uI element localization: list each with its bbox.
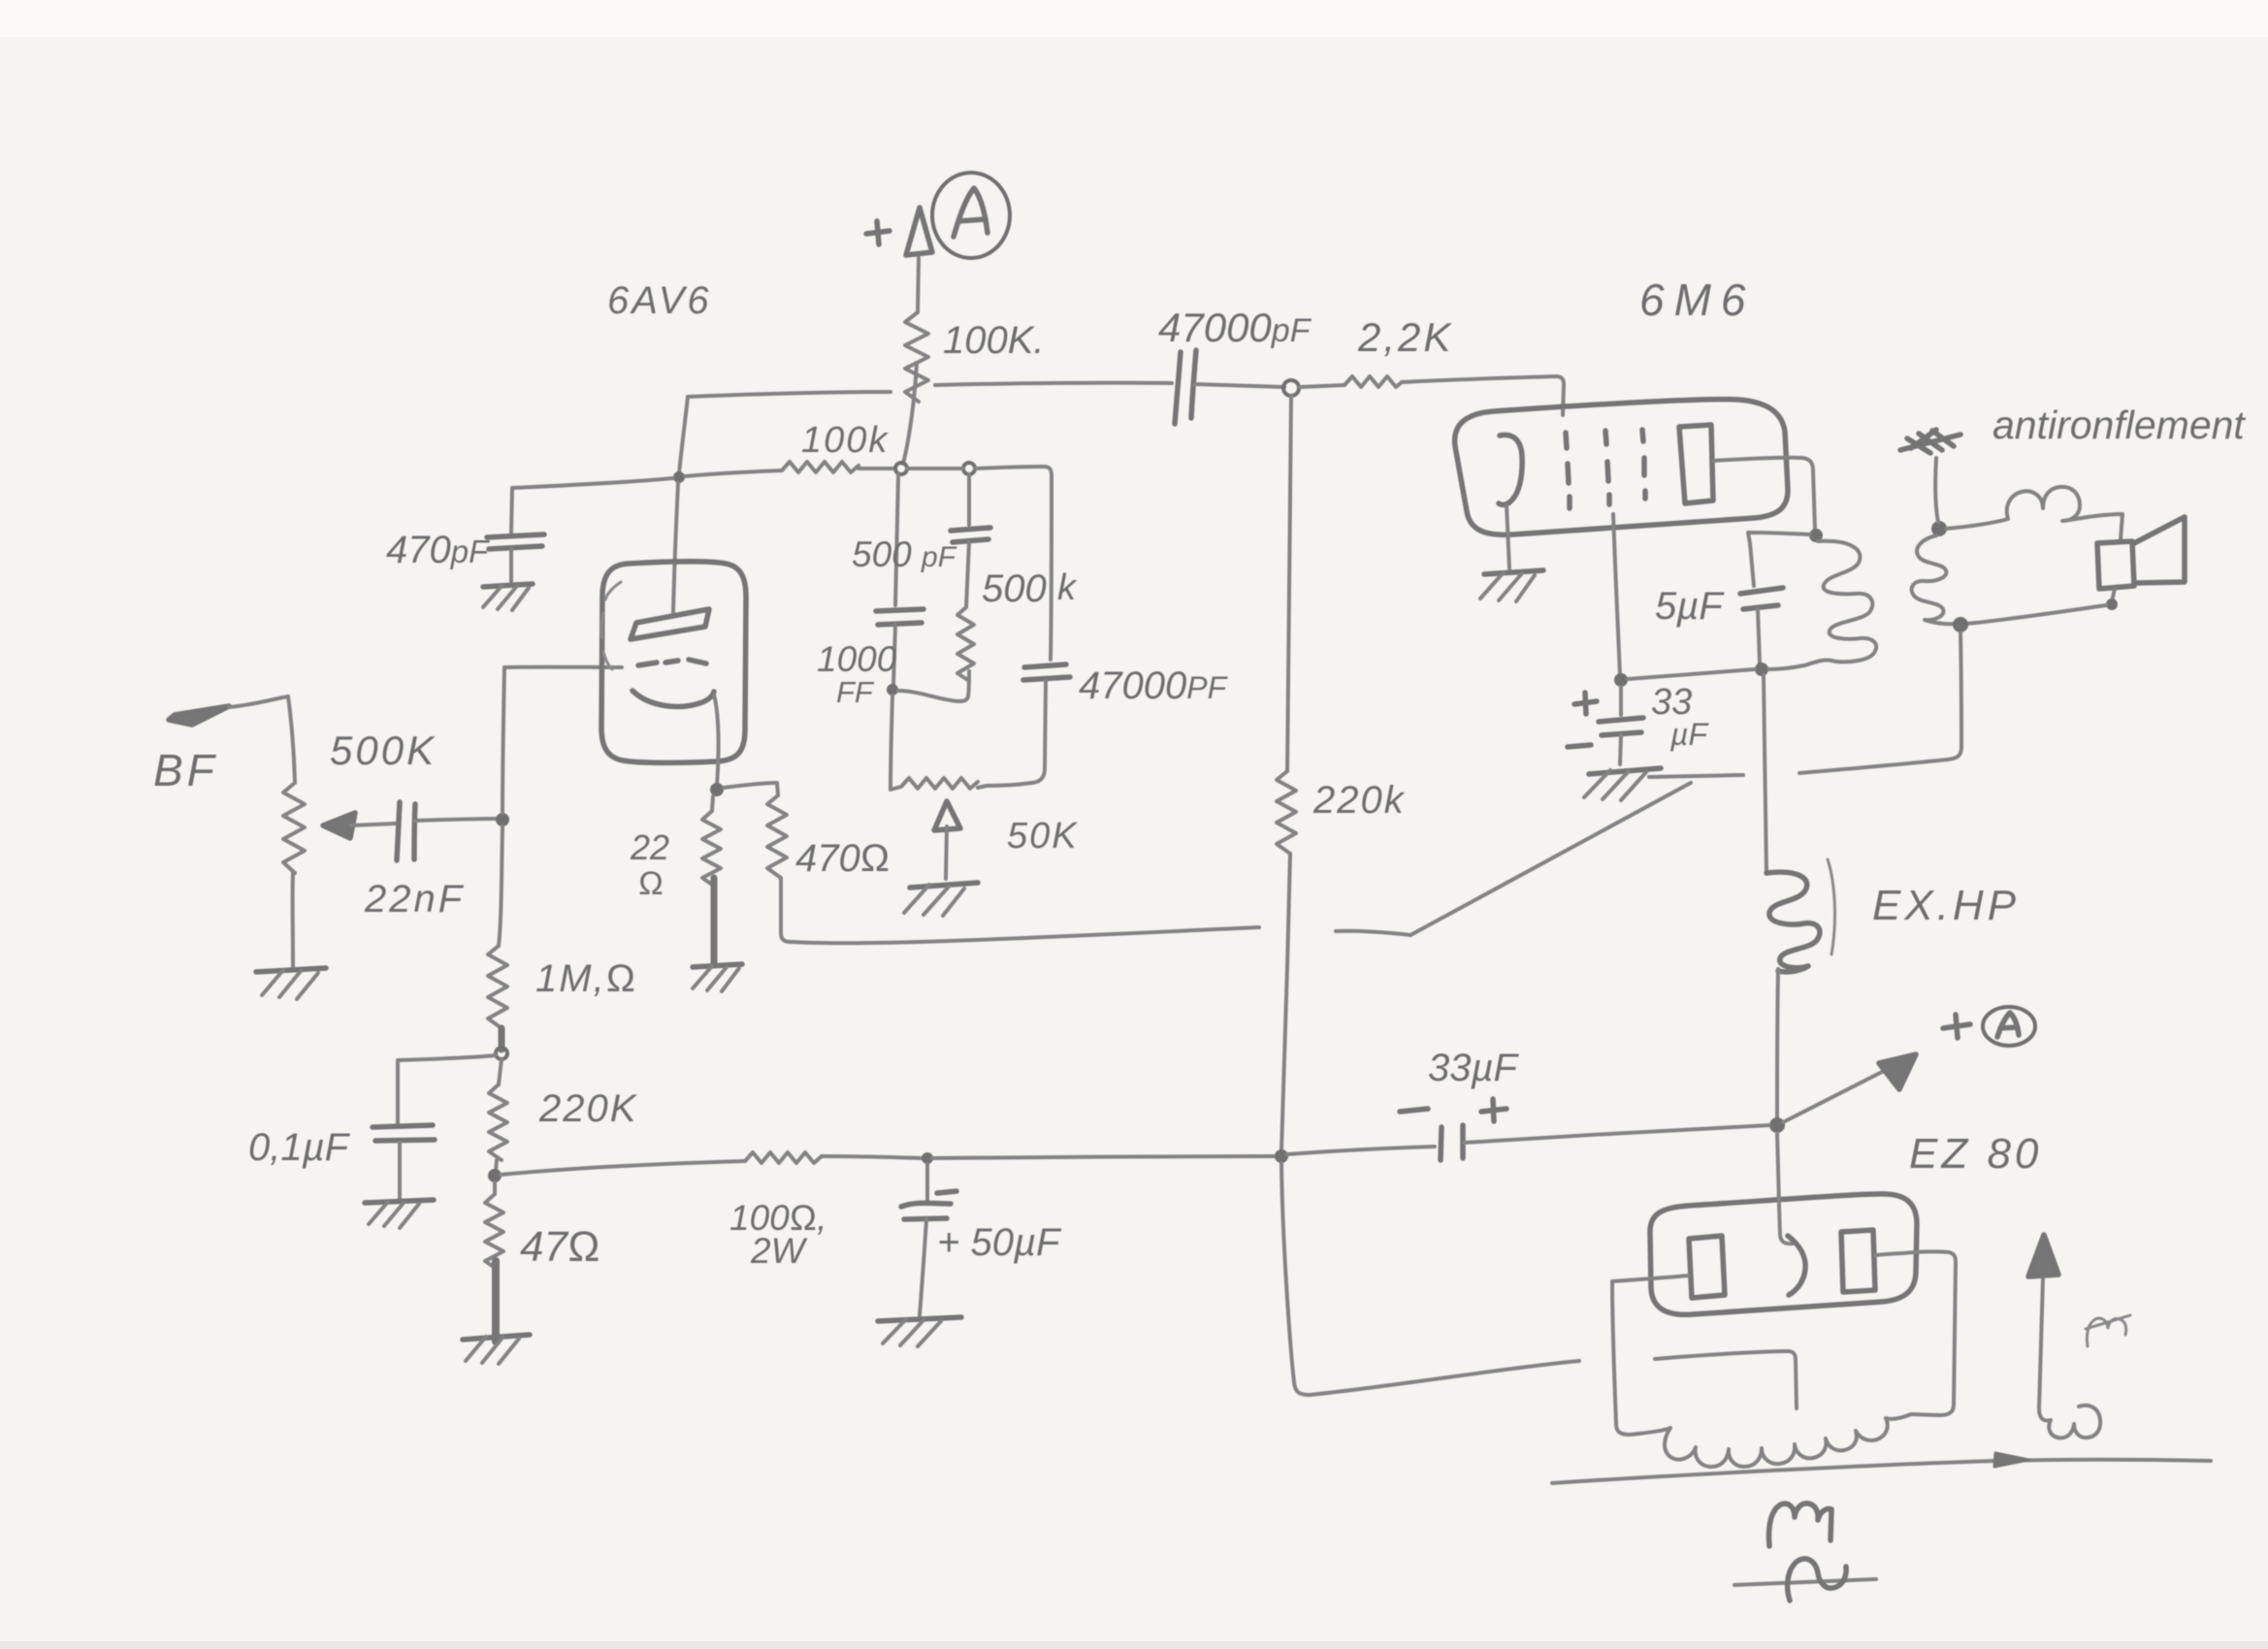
wire BF to pot top	[288, 696, 295, 783]
resistor 220K right	[1277, 771, 1296, 854]
svg-text:22: 22	[630, 827, 669, 867]
wire cathode to 470ohm corner	[724, 783, 778, 795]
tube EZ80 anode left	[1689, 1236, 1725, 1298]
resistor 470 ohm	[767, 795, 787, 880]
ground (0.1uF)	[365, 1200, 434, 1203]
node junction cathode 6M6	[1614, 673, 1628, 687]
node anti-hum hatch	[1900, 430, 1960, 453]
resistor 47 ohm	[493, 1182, 497, 1194]
wire 6M6 anode lead	[1713, 458, 1815, 530]
svg-text:BF: BF	[153, 745, 218, 795]
wire speaker bottom lead	[2112, 589, 2115, 601]
inductor secondary coil	[1912, 535, 1954, 624]
svg-text:6M6: 6M6	[1639, 275, 1755, 325]
node junction 1M/220K	[496, 1048, 507, 1059]
tube 6AV6 dashed arc	[601, 582, 621, 669]
resistor 500K	[957, 607, 974, 681]
svg-text:100k: 100k	[801, 420, 889, 461]
node junction secondary bottom	[1953, 617, 1968, 632]
ground (22 ohm)	[693, 964, 742, 967]
node screen dot1	[895, 463, 907, 474]
wire grid vertical upper	[502, 667, 504, 813]
heater symbol m	[1769, 1503, 1832, 1546]
resistor 220K left	[499, 1059, 502, 1084]
svg-text:100K.: 100K.	[943, 319, 1045, 362]
wire top bus corner down to anode node	[679, 397, 688, 473]
ground (47 ohm)	[463, 1335, 530, 1340]
capacitor 47000pF lower	[1051, 475, 1052, 660]
capacitor 0.1uF	[373, 1125, 433, 1127]
inductor humbucking coil	[1946, 487, 2088, 529]
svg-text:0,1µF: 0,1µF	[248, 1126, 351, 1169]
potentiometer 50K wiper arrow	[934, 801, 960, 830]
resistor 100k screen	[782, 462, 859, 472]
ground (pot 500K)	[256, 968, 326, 972]
svg-text:470pF: 470pF	[386, 529, 490, 571]
node cathode junction	[710, 783, 724, 796]
node junction primary top	[1809, 529, 1823, 542]
wire screen bus	[685, 470, 782, 476]
node junction 5uF bottom	[1755, 663, 1768, 676]
tube 6AV6 anode plate	[631, 609, 709, 639]
wire dot2 to 500K corner	[975, 467, 1052, 475]
svg-text:47Ω: 47Ω	[520, 1223, 600, 1271]
speaker	[2097, 541, 2134, 589]
inductor EX.HP choke	[1766, 872, 1820, 972]
wire EZ80 right anode lead	[1875, 1253, 1903, 1255]
node +A supply arrow top	[918, 258, 919, 312]
svg-text:470Ω: 470Ω	[795, 837, 890, 880]
ground (470pF)	[483, 584, 533, 587]
node +A arrow right	[1783, 1067, 1892, 1122]
wire pot bottom to ground	[291, 873, 295, 970]
svg-text:Ω: Ω	[638, 865, 664, 902]
ground (33uF)	[1589, 768, 1661, 774]
svg-text:220K: 220K	[538, 1087, 638, 1130]
tube 6M6 grid dashes col3	[1642, 430, 1645, 499]
node circled A top	[932, 173, 1010, 258]
svg-text:22nF: 22nF	[364, 878, 465, 921]
svg-text:47000pF: 47000pF	[1158, 305, 1312, 350]
wire transformer inner tap box	[1655, 1351, 1797, 1408]
tube 6M6 anode plate	[1679, 425, 1713, 503]
wire vertical to EX.HP	[1764, 675, 1766, 873]
node heater arrow right	[2039, 1278, 2100, 1438]
wire down to EZ80 loop	[1281, 1163, 1310, 1395]
capacitor 22nF	[397, 802, 400, 860]
wire to 470pF	[512, 478, 673, 488]
svg-text:6AV6: 6AV6	[607, 279, 712, 322]
svg-text:1M,Ω: 1M,Ω	[535, 957, 637, 1000]
tube 6AV6 grid dashes	[638, 660, 706, 665]
wire bottom bus	[501, 1161, 745, 1175]
wire cathode bus right	[791, 927, 1259, 943]
inductor transformer HV winding	[1630, 1414, 1911, 1467]
node anode junction 6AV6	[673, 471, 685, 483]
resistor 2.2K	[1300, 385, 1345, 387]
resistor 22 ohm	[712, 796, 713, 811]
svg-text:47000PF: 47000PF	[1079, 664, 1229, 707]
wire 6M6 cathode lead to ground	[1507, 505, 1509, 568]
tube 6M6 grid dashes col1	[1566, 433, 1570, 508]
tube EZ80 heater	[1788, 1236, 1805, 1295]
wire cathode lead 6AV6	[714, 695, 719, 786]
wire cathode to 5uF node	[1628, 669, 1755, 679]
potentiometer 50K	[891, 778, 978, 790]
wire grid horizontal to tube	[504, 665, 622, 669]
svg-text:5µF: 5µF	[1655, 585, 1725, 628]
node grid junction	[496, 813, 509, 826]
svg-text:EX.HP: EX.HP	[1872, 882, 2020, 929]
tube 6M6 grid hook	[1499, 435, 1522, 504]
wire EZ80 left anode lead	[1612, 1276, 1689, 1281]
svg-text:FF: FF	[836, 675, 875, 709]
svg-text:k: k	[1057, 567, 1078, 608]
wire mid horizontal	[898, 691, 958, 701]
potentiometer 500K body	[283, 783, 305, 873]
wire anti-hum lead	[1935, 458, 1938, 522]
wire 5uF top	[1748, 533, 1810, 543]
capacitor 33uF vertical	[1619, 687, 1623, 715]
wire top bus left segment	[688, 392, 891, 397]
wire to speaker top	[2088, 514, 2122, 539]
wire secondary bottom down and left	[1799, 632, 1961, 773]
svg-text:50K: 50K	[1007, 816, 1079, 857]
svg-text:+ 50µF: + 50µF	[937, 1221, 1062, 1264]
svg-text:33µF: 33µF	[1428, 1047, 1520, 1089]
wire EZ80 cathode lead from node	[1777, 1133, 1793, 1244]
node screen dot2	[963, 463, 975, 474]
svg-text:2W: 2W	[750, 1231, 808, 1271]
wire ground bus right	[1649, 775, 1743, 777]
resistor 1M	[499, 826, 502, 946]
wire 50K branch down	[891, 695, 892, 790]
capacitor 33uF horizontal	[1287, 1147, 1435, 1154]
node circled A right	[1983, 1007, 2035, 1046]
svg-text:EZ 80: EZ 80	[1909, 1130, 2042, 1178]
tube EZ80 anode right	[1841, 1230, 1875, 1292]
resistor 100 ohm 2W	[745, 1152, 822, 1163]
svg-text:1000: 1000	[817, 639, 897, 679]
svg-text:µF: µF	[1669, 717, 1709, 752]
wire anode lead into tube	[673, 483, 678, 612]
capacitor 470pF	[511, 488, 512, 533]
tube 6M6 grid dashes col2	[1605, 431, 1609, 504]
wire 6M6 cathode lead down	[1613, 514, 1620, 675]
node junction bottom right bus	[1275, 1149, 1288, 1163]
tube EZ80 envelope	[1650, 1194, 1917, 1314]
mains sine symbol	[1734, 1579, 1876, 1585]
node junction mid	[887, 684, 898, 695]
node junction 50uF	[922, 1152, 933, 1164]
ground (50uF)	[878, 1317, 961, 1321]
svg-text:220k: 220k	[1312, 779, 1406, 822]
capacitor 47000pF coupling	[1175, 352, 1181, 424]
wire 22nF to grid node	[415, 819, 501, 821]
inductor primary coil	[1804, 541, 1876, 665]
node BF input arrow	[169, 706, 229, 725]
wire EX.HP down to B+ node	[1777, 969, 1778, 1119]
tube 6M6 envelope	[1455, 400, 1788, 535]
wire transformer HV left side	[1612, 1281, 1630, 1435]
capacitor 50uF	[925, 1164, 929, 1201]
svg-text:500 pF: 500 pF	[852, 534, 957, 574]
svg-text:antironflement: antironflement	[1993, 403, 2246, 447]
tube 6AV6 cathode	[632, 691, 714, 706]
capacitor 500pF	[967, 474, 971, 525]
capacitor 5uF	[1750, 543, 1754, 586]
wire to 0.1uF	[398, 1055, 496, 1123]
wire primary bottom to node	[1768, 665, 1804, 669]
svg-text:500: 500	[982, 567, 1047, 610]
wire top bus right segment	[935, 383, 1172, 385]
wire long vertical 220K branch	[1287, 396, 1291, 771]
ground (6M6 cathode)	[1484, 570, 1543, 574]
node junction secondary top	[1931, 521, 1947, 536]
potentiometer wiper arrow	[323, 813, 355, 838]
wire mains bus	[1552, 1460, 2211, 1483]
node junction B+ EZ80	[1769, 1117, 1785, 1133]
svg-text:500K: 500K	[330, 727, 437, 773]
node junction coupling	[1283, 380, 1299, 396]
ground (50K wiper)	[910, 883, 978, 888]
tube 6AV6 envelope	[601, 562, 746, 763]
svg-text:2,2K: 2,2K	[1357, 314, 1453, 360]
capacitor 1000pF	[895, 474, 898, 605]
resistor 100K plate load	[905, 312, 928, 402]
node junction bottom bus left	[488, 1169, 502, 1182]
wire diagonal cathode feedback	[1410, 783, 1691, 935]
